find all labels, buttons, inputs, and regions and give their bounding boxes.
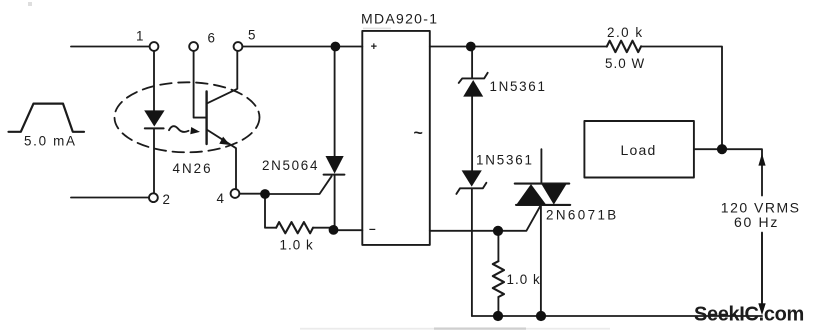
- svg-text:MDA920-1: MDA920-1: [361, 11, 438, 27]
- svg-text:2N5064: 2N5064: [262, 158, 319, 173]
- svg-text:4N26: 4N26: [173, 161, 213, 176]
- svg-text:~: ~: [414, 125, 423, 142]
- svg-text:6: 6: [208, 31, 217, 46]
- svg-text:–: –: [369, 221, 376, 235]
- svg-text:5.0 W: 5.0 W: [605, 56, 645, 71]
- svg-text:1N5361: 1N5361: [490, 79, 547, 94]
- svg-text:SeekIC.com: SeekIC.com: [694, 304, 804, 326]
- svg-text:4: 4: [217, 191, 226, 206]
- svg-text:1.0 k: 1.0 k: [280, 238, 314, 253]
- svg-text:1: 1: [136, 29, 145, 44]
- svg-text:5.0 mA: 5.0 mA: [24, 134, 77, 149]
- svg-text:+: +: [371, 41, 377, 53]
- svg-text:1N5361: 1N5361: [476, 153, 534, 168]
- svg-text:1.0 k: 1.0 k: [507, 272, 541, 287]
- svg-text:5: 5: [248, 28, 257, 43]
- svg-text:2.0 k: 2.0 k: [607, 25, 644, 40]
- svg-text:60 Hz: 60 Hz: [734, 214, 779, 230]
- svg-text:2: 2: [163, 192, 172, 207]
- svg-text:Load: Load: [621, 142, 657, 158]
- svg-text:2N6071B: 2N6071B: [546, 208, 619, 223]
